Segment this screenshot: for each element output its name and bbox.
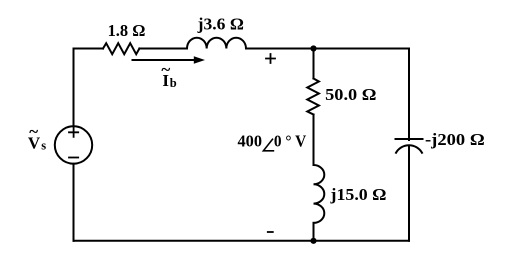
angle symbol of 400/0 V label [263, 139, 273, 151]
svg-text:~: ~ [29, 122, 38, 141]
label Ib [161, 60, 176, 90]
label j15.0 ohm [329, 185, 386, 204]
wire: between resistor and inductor [139, 48, 187, 50]
inductor j3.6 ohm [187, 38, 246, 49]
wire: top-left lead [74, 48, 104, 50]
wire: middle node to top-right corner [314, 48, 410, 50]
node: bottom junction dot [310, 238, 316, 244]
wire: middle branch upper lead [313, 49, 315, 79]
svg-text:j15.0 Ω: j15.0 Ω [329, 185, 386, 204]
svg-text:0 ° V: 0 ° V [274, 132, 307, 151]
label j3.6 ohm [197, 14, 244, 33]
node: top junction dot [310, 45, 316, 51]
resistor 50.0 ohm [307, 79, 319, 115]
label 400/0 V [238, 132, 307, 151]
wire: left rail bottom segment [73, 164, 75, 241]
svg-text:-j200 Ω: -j200 Ω [425, 130, 485, 149]
current arrow Ib [133, 56, 206, 64]
svg-text:50.0 Ω: 50.0 Ω [325, 85, 376, 104]
wire: middle branch lower lead [313, 223, 315, 241]
wire: middle branch between resistor and inductor [313, 115, 315, 166]
label Vs [28, 122, 46, 153]
svg-text:400: 400 [238, 132, 263, 151]
label 50.0 ohm [325, 85, 376, 104]
wire: right rail upper lead [408, 49, 410, 141]
wire: left rail top segment [73, 49, 75, 127]
label -j200 ohm [425, 130, 485, 149]
svg-text:s: s [41, 139, 46, 153]
wire: right rail lower lead [408, 146, 410, 241]
capacitor -j200 ohm [396, 139, 423, 153]
resistor 1.8 ohm [103, 43, 139, 54]
wire: bottom rail [74, 240, 410, 242]
inductor j15.0 ohm [314, 165, 325, 223]
label 1.8 ohm [108, 21, 146, 40]
source Vs (sinusoidal voltage source) [55, 126, 92, 163]
wire: inductor to middle node [246, 48, 314, 50]
polarity - (node voltage) [268, 231, 273, 233]
svg-text:b: b [170, 76, 177, 90]
polarity + (node voltage) [266, 54, 275, 63]
svg-text:1.8 Ω: 1.8 Ω [108, 21, 146, 40]
svg-text:j3.6 Ω: j3.6 Ω [197, 14, 244, 33]
